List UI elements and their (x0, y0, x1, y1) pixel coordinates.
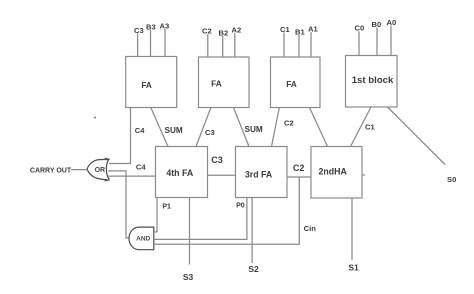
svg-text:FA: FA (286, 80, 297, 89)
wire CARRY OUT to OR gate output (71, 169, 88, 171)
wire C1 to FA3 (283, 33, 285, 58)
stub on right edge of 2ndHA (362, 174, 365, 176)
wire C1 from 1st block to 2ndHA (351, 107, 372, 147)
svg-text:B2: B2 (219, 28, 229, 37)
wire C0 to 1st block (358, 31, 360, 55)
wire A2 to FA2 (234, 33, 236, 57)
svg-text:A2: A2 (232, 26, 242, 35)
svg-text:C2: C2 (284, 119, 294, 128)
and gate AND (mirrored, output left) (129, 227, 154, 250)
svg-text:2ndHA: 2ndHA (319, 167, 348, 177)
wire Cin from C2 node down to AND bottom input (154, 177, 299, 244)
svg-text:AND: AND (136, 236, 150, 243)
svg-text:SUM: SUM (245, 125, 263, 134)
adder 4th FA (156, 147, 208, 198)
svg-text:P0: P0 (236, 203, 245, 210)
wire AND output up to OR middle input (108, 171, 130, 238)
wire C4 from FA1 down to OR gate top input (109, 108, 131, 164)
svg-text:C3: C3 (134, 26, 144, 35)
svg-text:C3: C3 (205, 128, 215, 137)
wire A3 to FA1 (164, 29, 166, 57)
wire C3 between 4th FA and 3rd FA (208, 174, 236, 176)
svg-text:4th FA: 4th FA (166, 168, 194, 178)
wire C3 from FA2 to 4th FA (196, 108, 211, 147)
half adder 1st block (bit 0) (346, 56, 398, 108)
svg-text:1st block: 1st block (352, 75, 394, 86)
wire S1 from 2ndHA (351, 198, 353, 260)
wire SUM from FA3 to 2ndHA (310, 108, 328, 147)
svg-text:C4: C4 (136, 163, 146, 172)
wire B3 to FA1 (150, 30, 152, 57)
wire S3 from 4th FA (189, 198, 191, 265)
wire SUM from FA2 to 3rd FA (234, 108, 250, 147)
full adder FA3 (bit 1) (271, 57, 321, 108)
svg-text:C1: C1 (365, 123, 375, 132)
svg-text:3rd FA: 3rd FA (245, 170, 273, 180)
svg-text:B0: B0 (372, 20, 382, 29)
wire B0 to 1st block (376, 28, 378, 56)
svg-text:OR: OR (95, 167, 106, 174)
adder 3rd FA (236, 147, 288, 198)
svg-text:FA: FA (211, 80, 222, 89)
wire P0 from 3rd FA to AND middle input (154, 198, 247, 240)
svg-text:A3: A3 (160, 22, 170, 31)
svg-text:C2: C2 (293, 163, 305, 173)
or gate OR (mirrored, output left) (87, 158, 110, 181)
svg-text:SUM: SUM (165, 126, 183, 135)
svg-text:P1: P1 (162, 203, 171, 210)
wire C2 from FA3 to 3rd FA (272, 108, 280, 147)
svg-text:S2: S2 (248, 264, 259, 274)
svg-text:CARRY OUT: CARRY OUT (30, 167, 72, 174)
wire A1 to FA3 (310, 32, 312, 57)
svg-text:B1: B1 (295, 27, 305, 36)
wire S0 from 1st block (388, 107, 446, 165)
wire C2 between 3rd FA and 2ndHA (287, 176, 311, 178)
wire A0 to 1st block (390, 26, 392, 56)
wire C2 to FA2 (207, 34, 209, 57)
wire P1 from 4th FA to AND top input (154, 198, 157, 232)
wire S2 from 3rd FA (251, 198, 253, 264)
wire B2 to FA2 (222, 36, 224, 57)
stray mark (94, 117, 96, 119)
full adder FA1 (bit 3) (126, 57, 177, 108)
svg-text:Cin: Cin (304, 224, 317, 233)
svg-text:C1: C1 (280, 25, 290, 34)
svg-text:C4: C4 (135, 126, 145, 135)
full adder FA2 (bit 2) (199, 57, 250, 108)
wire C4 from 4th FA left edge to OR bottom input (108, 175, 156, 177)
svg-text:C2: C2 (202, 27, 212, 36)
svg-text:S0: S0 (447, 175, 456, 184)
svg-text:S1: S1 (348, 263, 359, 273)
svg-text:C3: C3 (211, 155, 223, 165)
svg-text:FA: FA (141, 81, 152, 90)
wire SUM from FA1 to 4th FA (151, 108, 168, 147)
half adder 2ndHA (311, 147, 362, 199)
svg-text:S3: S3 (183, 272, 194, 282)
wire C3 to FA1 (137, 34, 139, 57)
svg-text:A1: A1 (308, 24, 318, 33)
wire B1 to FA3 (298, 35, 300, 57)
